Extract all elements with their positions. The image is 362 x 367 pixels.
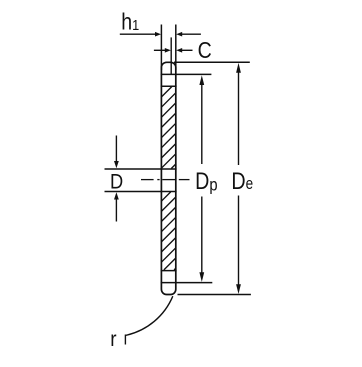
C dimension line left part with arrow	[154, 48, 171, 53]
hatching lower section	[161, 192, 175, 270]
Dp dimension vertical line with arrows	[199, 75, 204, 282]
extension line right edge (h1 / C)	[175, 25, 177, 71]
sprocket plate outline (rounded bar)	[161, 62, 175, 294]
extension line middle (C)	[170, 37, 172, 74]
C dimension line right part with arrow	[176, 48, 192, 53]
extension line left edge (h1)	[160, 25, 162, 71]
centerline of bore (dash-dot)	[141, 179, 190, 181]
tip line De bottom	[178, 294, 251, 296]
pitch line Dp top (crosses bar, extends right)	[161, 73, 212, 75]
De dimension vertical line with arrows	[236, 63, 241, 294]
r leader end tick	[124, 335, 126, 345]
svg-text:D: D	[110, 170, 123, 194]
D dimension lower arrow (points up)	[114, 192, 119, 221]
tip line De top	[174, 61, 250, 63]
pitch line Dp bottom (crosses bar, extends right)	[161, 282, 213, 284]
tooth root line across bar (lower)	[161, 270, 177, 272]
bore top line (crosses bar, extends left)	[105, 168, 177, 170]
r leader arc	[126, 296, 173, 335]
D dimension upper arrow (points down)	[114, 136, 119, 169]
h1 dimension line right part with arrow	[176, 32, 201, 37]
bore bottom line (crosses bar, extends left)	[105, 191, 177, 193]
svg-text:C: C	[198, 38, 212, 64]
svg-text:r: r	[110, 328, 117, 351]
h1 dimension line left part with arrow	[120, 32, 161, 37]
hatching upper section	[161, 87, 175, 169]
tooth root line across bar (upper)	[161, 85, 177, 87]
